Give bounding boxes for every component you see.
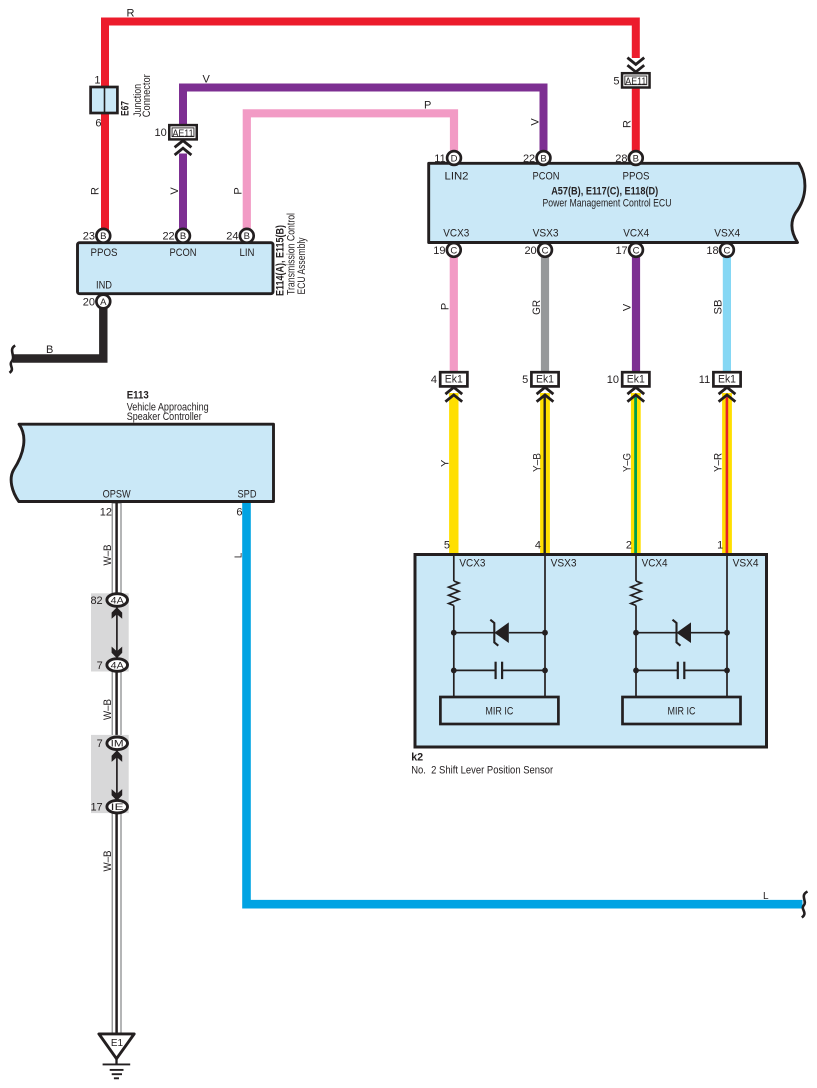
svg-text:B: B [244,231,250,242]
svg-text:R: R [90,187,102,195]
wire V purple: from PCON pin 22 of TC-ECU up to AE11 [179,154,187,238]
chevron arrows down into AE11 right [627,58,644,72]
pin 11 D of PM-ECU [434,151,461,165]
label E113 title [127,390,209,424]
junction dot VCX3 diode row [451,630,457,636]
svg-text:B: B [46,344,53,356]
zener diode between VCX3 and VSX3 [454,620,545,646]
ECU box: A57(B),E117(C),E118(D) Power Management Control ECU [429,163,805,242]
svg-text:IM: IM [111,739,124,750]
svg-text:Ek1: Ek1 [445,374,463,386]
svg-text:k2: k2 [411,752,423,764]
wire W-B: below IE down to ground E1 [112,813,121,1035]
IC box MIR IC [623,697,741,724]
resistor on VCX4 line [631,581,641,606]
sensor box k2 No.2 Shift Lever Position Sensor [415,555,767,748]
connector oval IE pin 17 [90,800,127,813]
svg-text:19: 19 [433,245,445,257]
svg-text:Y–G: Y–G [622,453,634,472]
connector block 4A-4A gray background [91,593,129,671]
svg-text:P: P [439,303,451,310]
svg-text:C: C [450,245,457,256]
wire VCX4 line below resistor [635,606,637,698]
break squiggle at right end of wire L [802,892,808,918]
svg-text:22: 22 [523,153,535,165]
svg-text:10: 10 [155,127,167,139]
svg-text:10: 10 [607,374,619,386]
svg-text:MIR IC: MIR IC [485,706,513,718]
break squiggle at left end of wire B [10,346,16,373]
connector Ek1 pin 4 [431,372,468,386]
node VCX3 internal line [453,556,455,581]
arrow down inside IM-IE block [112,789,123,801]
svg-text:22: 22 [162,231,174,243]
svg-text:Ek1: Ek1 [627,374,645,386]
svg-text:LIN2: LIN2 [445,170,469,182]
junction dot VCX4 diode row [633,630,639,636]
connector Ek1 pin 5 [522,372,559,386]
pin 22 B of TC-ECU [162,229,189,243]
svg-text:Connector: Connector [141,74,153,117]
label E67 Junction Connector [120,74,153,117]
pin 24 B of TC-ECU [226,229,253,243]
svg-text:R: R [622,120,634,128]
svg-text:12: 12 [100,506,112,518]
junction dot VCX3 capacitor row [451,668,457,674]
svg-text:L: L [233,552,244,558]
wire B black: from IND pin 20 down and left to break [13,306,103,359]
svg-text:6: 6 [95,118,101,130]
svg-text:C: C [542,245,549,256]
svg-text:17: 17 [90,802,102,814]
chevron arrows up into AE11 [175,141,192,155]
resistor on VCX3 line [449,581,459,606]
svg-text:28: 28 [615,153,627,165]
svg-text:V: V [169,187,181,195]
svg-text:AE11: AE11 [173,128,194,139]
svg-text:V: V [529,118,541,126]
junction connector E67 [91,87,118,113]
wire Y-R yellow/red: Ek1 11 down to sensor pin 1 [722,393,732,555]
svg-text:R: R [127,7,135,19]
chevron arrows up into Ek1 pin 10 [627,387,644,401]
connector oval 4A pin 7 [97,659,128,672]
svg-text:V: V [203,74,211,86]
svg-text:A57(B), E117(C), E118(D): A57(B), E117(C), E118(D) [551,186,658,198]
svg-text:IND: IND [96,280,112,292]
connector oval 4A pin 82 [90,594,127,607]
pin 28 B of PM-ECU [615,151,642,165]
svg-text:PPOS: PPOS [623,170,650,182]
svg-text:VCX4: VCX4 [623,227,649,239]
svg-text:GR: GR [531,300,543,315]
svg-text:82: 82 [90,595,102,607]
chevron arrows up into Ek1 pin 11 [719,387,736,401]
junction dot VSX3 capacitor row [542,668,548,674]
svg-text:LIN: LIN [240,247,255,259]
connector block IM-IE gray background [91,735,129,813]
svg-text:20: 20 [524,245,536,257]
svg-text:PPOS: PPOS [91,247,118,259]
svg-text:C: C [723,245,730,256]
junction dot VSX4 diode row [724,630,730,636]
connector AE11 pin 10 [155,125,197,139]
wire Y-G yellow/green: Ek1 10 down to sensor pin 2 [631,393,641,555]
svg-text:PCON: PCON [533,170,560,182]
wire GR gray: VSX3 pin 20 down to Ek1 [541,255,549,374]
svg-text:VSX4: VSX4 [733,557,759,569]
svg-text:5: 5 [613,75,619,87]
junction dot VCX4 capacitor row [633,668,639,674]
svg-text:Ek1: Ek1 [536,374,554,386]
wire L blue: from SPD pin 6 down and right across page to break [247,503,803,904]
rotated label E114(A), E115(B) Transmission Control ECU Assembly [275,213,308,296]
svg-text:Y–B: Y–B [531,453,543,472]
svg-text:B: B [633,153,639,164]
svg-text:1: 1 [717,539,723,551]
svg-text:B: B [180,231,186,242]
chevron arrows up into Ek1 pin 4 [445,387,462,401]
wire SB light-blue: VSX4 pin 18 down to Ek1 [723,255,731,374]
chevron arrows up into Ek1 pin 5 [537,387,554,401]
svg-text:L: L [763,891,769,902]
svg-text:B: B [540,153,546,164]
svg-text:Speaker Controller: Speaker Controller [127,411,202,423]
svg-text:4: 4 [535,539,541,551]
svg-text:4A: 4A [111,595,125,606]
wire Y-B yellow/black: Ek1 5 down to sensor pin 4 [540,393,550,555]
svg-text:VSX4: VSX4 [714,227,740,239]
junction dot VSX3 diode row [542,630,548,636]
wire W-B: between 4A and IM gray blocks [112,671,121,736]
svg-text:E1: E1 [111,1038,124,1049]
svg-text:5: 5 [444,539,450,551]
svg-text:18: 18 [706,245,718,257]
svg-text:11: 11 [699,374,710,386]
svg-text:ECU Assembly: ECU Assembly [296,237,308,294]
svg-text:AE11: AE11 [625,77,646,88]
wire V purple: VCX4 pin 17 down to Ek1 [632,255,640,374]
svg-text:5: 5 [522,374,528,386]
node VCX4 internal line [635,556,637,581]
svg-text:6: 6 [236,506,242,518]
pin 22 B of PM-ECU [523,151,550,165]
wire Y yellow: Ek1 4 down to sensor pin 5 [449,393,458,555]
thin wire between 4A ovals [116,606,118,659]
svg-text:Y: Y [440,459,452,467]
pin 19 C of PM-ECU [433,243,460,257]
ECU box: Transmission Control ECU Assembly E114(A),E115(B) [78,243,274,294]
junction dot VSX4 capacitor row [724,668,730,674]
svg-text:24: 24 [226,231,238,243]
svg-text:17: 17 [615,245,627,257]
svg-text:B: B [100,231,106,242]
arrow up inside 4A block [112,607,123,619]
svg-text:MIR IC: MIR IC [668,706,696,718]
pin 20 A of TC-ECU [83,295,110,309]
svg-text:PCON: PCON [170,247,197,259]
svg-text:VCX3: VCX3 [459,557,485,569]
svg-text:No. 2 Shift Lever Position Se: No. 2 Shift Lever Position Sensor [411,765,553,777]
svg-text:C: C [633,245,640,256]
svg-text:E113: E113 [127,390,149,402]
capacitor between VCX4 and VSX4 [636,662,727,679]
svg-text:A: A [100,297,107,308]
svg-text:W–B: W–B [102,545,114,566]
svg-text:VCX4: VCX4 [642,557,668,569]
svg-text:7: 7 [97,738,103,750]
svg-text:VSX3: VSX3 [551,557,577,569]
svg-text:VSX3: VSX3 [533,227,559,239]
IC box MIR IC [440,697,558,724]
thin wire between IM and IE ovals [116,749,118,801]
svg-text:4: 4 [431,374,437,386]
svg-text:20: 20 [83,296,95,308]
connector AE11 pin 5 [613,73,649,87]
node VSX4 internal line [726,556,728,697]
svg-text:OPSW: OPSW [103,488,132,500]
svg-text:Y–R: Y–R [712,453,724,472]
svg-text:Power Management Control ECU: Power Management Control ECU [543,198,672,210]
connector Ek1 pin 11 [699,372,741,386]
svg-text:D: D [451,153,458,164]
pin 20 C of PM-ECU [524,243,551,257]
svg-text:1: 1 [94,75,100,87]
wire P pink: VCX3 pin 19 down to Ek1 [450,255,458,374]
svg-text:SB: SB [712,300,724,315]
svg-text:23: 23 [83,231,95,243]
pin 17 C of PM-ECU [615,243,642,257]
svg-text:11: 11 [434,153,445,165]
wire VCX3 line below resistor [453,606,455,698]
svg-text:4A: 4A [111,660,125,671]
svg-text:IE: IE [111,802,124,813]
svg-text:W–B: W–B [102,851,114,872]
svg-text:VCX3: VCX3 [443,227,469,239]
connector oval IM pin 7 [97,737,128,750]
svg-text:W–B: W–B [102,699,114,720]
wire R red: battery feed from E67 across top to AE11 and down to PPOS [105,22,636,239]
arrow up inside IM-IE block [112,750,123,762]
svg-text:V: V [621,303,633,311]
wire P pink: from LIN pin 24 of TC-ECU up across to PM-ECU pin 11 LIN2 [247,113,454,237]
zener diode between VCX4 and VSX4 [636,620,727,646]
capacitor between VCX3 and VSX3 [454,662,545,679]
ground E1 [99,1034,134,1078]
svg-text:P: P [233,187,245,194]
wire V purple: from AE11 top across to PM-ECU pin 22 PCON [183,88,544,154]
svg-text:2: 2 [626,539,632,551]
wire W-B: OPSW pin 12 down to connector 4A [112,503,121,594]
wire R red: below AE11 connector down to PM-ECU pin 28 [632,88,640,154]
svg-text:7: 7 [97,660,103,672]
node VSX3 internal line [544,556,546,697]
svg-text:Ek1: Ek1 [718,374,736,386]
svg-text:SPD: SPD [238,488,257,500]
svg-text:P: P [424,100,431,112]
svg-text:E67: E67 [120,101,132,116]
pin 18 C of PM-ECU [706,243,733,257]
ECU box: E113 Vehicle Approaching Speaker Controller [11,424,273,501]
connector Ek1 pin 10 [607,372,650,386]
pin 23 B of TC-ECU [83,229,110,243]
arrow down inside 4A block [112,647,123,659]
